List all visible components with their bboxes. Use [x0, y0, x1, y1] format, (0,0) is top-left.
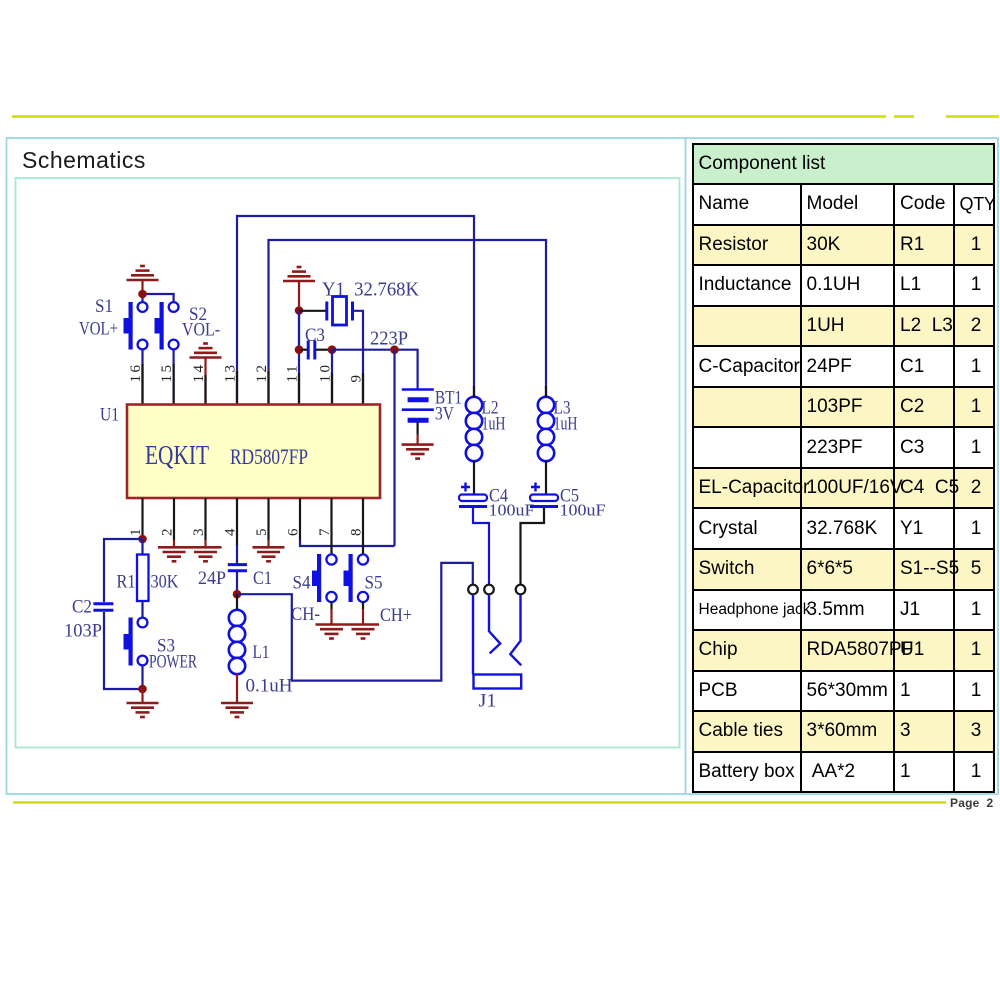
- wire: L3 to C5: [545, 461, 547, 494]
- wire: pin 2 ground stem: [173, 540, 175, 547]
- node pin 10 junction: [328, 345, 337, 354]
- wire: pin 5 stub: [267, 498, 269, 540]
- wire: pin 1 stub: [141, 498, 143, 539]
- wire: C2 branch left loop top: [104, 539, 143, 602]
- wire: C4 to jack contact 2: [473, 508, 489, 585]
- switch S1: [124, 302, 148, 350]
- svg-text:103P: 103P: [64, 621, 102, 642]
- svg-text:POWER: POWER: [149, 652, 197, 673]
- svg-text:24P: 24P: [198, 568, 226, 589]
- switch S5: [344, 554, 369, 602]
- ground (above pin 14): [190, 344, 222, 358]
- svg-text:11: 11: [285, 363, 301, 382]
- svg-text:RD5807FP: RD5807FP: [230, 444, 308, 469]
- ground (above Y1): [283, 267, 315, 281]
- outer page frame: [7, 138, 999, 794]
- capacitor C5: [530, 483, 558, 507]
- wire: C3 left lead: [301, 349, 307, 351]
- ground (below battery): [402, 445, 434, 459]
- ground (pin 3): [190, 547, 222, 561]
- svg-text:VOL+: VOL+: [79, 319, 118, 340]
- svg-text:VOL-: VOL-: [182, 320, 220, 341]
- capacitor C2: [93, 604, 113, 611]
- page number: [950, 796, 993, 810]
- wire: S3 bottom to ground node: [141, 665, 143, 689]
- svg-text:3V: 3V: [435, 404, 454, 425]
- ground (pin 5): [253, 547, 285, 561]
- wire: bus from pin 13 to L2 (top): [237, 216, 474, 404]
- wire: C2 branch left loop bottom: [104, 612, 143, 689]
- crystal Y1: [327, 297, 353, 326]
- wire: ground stem to S1/S2 node: [141, 280, 143, 294]
- wire: pin 6 to 223P rail: [300, 540, 395, 546]
- inductor L1: [229, 610, 245, 674]
- svg-text:30K: 30K: [151, 572, 179, 593]
- wire: pin stubs (black) at chip top: [143, 364, 364, 404]
- node C1/L1 junction: [233, 590, 242, 599]
- svg-text:9: 9: [349, 373, 365, 383]
- wire: C1 to L1 node: [236, 571, 238, 594]
- wire: L2 to C4: [473, 461, 475, 494]
- component list table: [692, 143, 995, 794]
- svg-text:S5: S5: [365, 573, 383, 594]
- wire: pin 4 to C1: [236, 498, 238, 546]
- wire: L1 node to jack contact 1: [237, 563, 473, 681]
- top yellow separator line: [12, 115, 999, 118]
- svg-text:1uH: 1uH: [482, 414, 506, 435]
- svg-text:S1: S1: [95, 296, 113, 317]
- switch S3: [124, 618, 148, 666]
- wire: pin1 junction to R1: [141, 539, 143, 555]
- svg-text:14: 14: [191, 363, 207, 383]
- svg-text:R1: R1: [117, 572, 136, 593]
- ground (below L1): [221, 703, 253, 717]
- capacitor C3: [308, 341, 315, 360]
- Schematics heading: [22, 147, 146, 174]
- svg-text:S4: S4: [293, 573, 311, 594]
- wire: C3 right lead to pin 10: [316, 349, 332, 351]
- svg-text:L1: L1: [253, 642, 270, 663]
- svg-text:C3: C3: [305, 325, 325, 346]
- headphone jack J1: [468, 585, 525, 689]
- svg-text:10: 10: [318, 363, 334, 383]
- wire: pin 6 stub: [299, 498, 301, 540]
- svg-text:0.1uH: 0.1uH: [246, 676, 293, 697]
- wire: S1 bottom to pin 16: [141, 349, 143, 404]
- wire: S3 ground stem: [141, 689, 143, 703]
- svg-text:C1: C1: [253, 568, 272, 589]
- wire: battery negative stem: [417, 422, 419, 435]
- wire: ground stem to pin 14: [204, 358, 206, 405]
- svg-text:U1: U1: [100, 405, 119, 426]
- wire: pin 3 stub: [204, 498, 206, 540]
- capacitor C1: [228, 565, 247, 571]
- wire: pin 8 stub: [362, 498, 364, 555]
- wire: node to crystal left: [299, 310, 326, 312]
- svg-text:1uH: 1uH: [554, 414, 578, 435]
- wire: C3 node to battery BT1: [332, 350, 418, 389]
- wire: pin 5 ground stem: [267, 540, 269, 547]
- wire: L1 ground stem: [236, 674, 238, 703]
- wire: bus from pin 12 to L3: [269, 240, 547, 404]
- node C3 left junction: [295, 345, 304, 354]
- switch S4: [312, 554, 337, 602]
- node 223P junction: [390, 345, 399, 354]
- frame divider: [685, 138, 687, 794]
- node S3 ground junction: [138, 685, 147, 694]
- wire: C5 to jack contact 3: [521, 508, 545, 585]
- wire: pin 7 stub: [330, 498, 332, 555]
- bottom yellow separator line: [13, 801, 946, 803]
- inductor L2: [466, 397, 482, 461]
- inductor L3: [538, 397, 554, 461]
- ground (above S1/S2): [127, 266, 159, 280]
- svg-text:223P: 223P: [370, 328, 408, 350]
- inner schematic frame: [16, 178, 680, 748]
- ground (pin 2): [158, 547, 190, 561]
- ground (below S5): [347, 625, 379, 639]
- svg-text:16: 16: [128, 363, 144, 383]
- svg-text:100uF: 100uF: [560, 501, 606, 520]
- svg-text:CH+: CH+: [380, 605, 412, 626]
- svg-text:13: 13: [223, 363, 239, 383]
- svg-text:J1: J1: [479, 691, 497, 712]
- ground (below S3): [127, 703, 159, 717]
- ground (below S4): [316, 625, 348, 639]
- switch S2: [155, 302, 179, 350]
- node Y1 left junction: [295, 306, 304, 315]
- wire: 223P node drop to pin 6 rail: [393, 350, 395, 546]
- wire: R1 to S3: [141, 601, 143, 618]
- svg-text:15: 15: [159, 363, 175, 383]
- svg-text:EQKIT: EQKIT: [145, 440, 209, 470]
- wire: node to L1: [236, 594, 238, 610]
- wire: S2 bottom to pin 15: [173, 349, 175, 404]
- wire: S4 ground stem: [330, 602, 332, 609]
- svg-text:Y1 32.768K: Y1 32.768K: [322, 279, 420, 301]
- wire: pin 10 riser: [331, 350, 333, 404]
- wire: pin 11 riser: [298, 311, 300, 405]
- wire: S5 ground stem: [362, 602, 364, 609]
- svg-text:12: 12: [254, 363, 270, 383]
- wire: pin 2 stub: [173, 498, 175, 540]
- capacitor C4: [459, 483, 487, 507]
- svg-text:C2: C2: [72, 597, 92, 618]
- wire: ground stem to Y1 node: [298, 281, 300, 311]
- battery BT1: [402, 390, 434, 421]
- node S1/S2 ground junction: [138, 290, 147, 299]
- wire: pin 3 ground stem: [204, 540, 206, 547]
- svg-text:CH-: CH-: [291, 604, 320, 625]
- wire: C3 node riser pin 11 lower: [298, 311, 300, 350]
- wire: node to S1 and S2 tops: [143, 294, 174, 302]
- resistor R1: [137, 555, 149, 602]
- chip U1: [127, 405, 380, 499]
- wire: crystal right to pin 9 riser: [354, 311, 363, 404]
- node pin 1 junction: [138, 535, 147, 544]
- svg-text:100uF: 100uF: [489, 501, 535, 520]
